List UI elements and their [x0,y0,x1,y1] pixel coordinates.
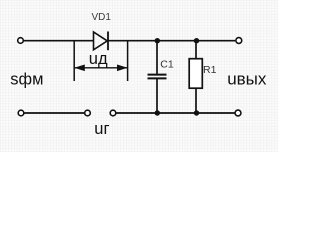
svg-text:R1: R1 [203,64,217,76]
svg-text:C1: C1 [160,58,174,70]
svg-text:uд: uд [89,50,108,68]
svg-text:sфм: sфм [10,70,43,88]
svg-text:uг: uг [94,120,109,138]
svg-text:VD1: VD1 [92,12,112,23]
svg-text:uвых: uвых [227,70,267,89]
